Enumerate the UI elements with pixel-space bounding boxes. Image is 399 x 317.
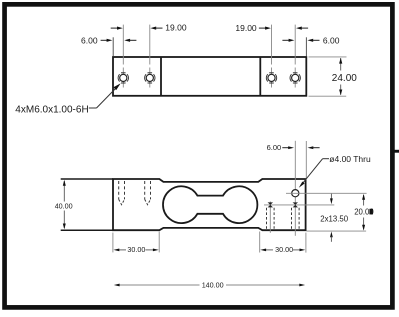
divider left bbox=[160, 57, 162, 96]
hidden tapped hole A (left block) bbox=[119, 181, 125, 205]
dim 2x13.50 bbox=[320, 194, 348, 242]
svg-text:6.00: 6.00 bbox=[267, 143, 282, 152]
centerline hole C bbox=[269, 202, 271, 233]
svg-text:30.00: 30.00 bbox=[127, 245, 145, 254]
dim 24.00 bbox=[309, 57, 358, 96]
top view body rect bbox=[113, 57, 306, 96]
leader phi4.00 Thru bbox=[299, 154, 371, 188]
note 4xM6.0x1.00-6H bbox=[15, 83, 120, 115]
svg-text:4xM6.0x1.00-6H: 4xM6.0x1.00-6H bbox=[15, 104, 88, 115]
svg-text:40.00: 40.00 bbox=[55, 202, 73, 211]
centerline hole D + phi4 hole bbox=[294, 141, 296, 236]
svg-text:6.00: 6.00 bbox=[323, 36, 340, 46]
lower view outline bbox=[113, 179, 306, 230]
hidden tapped hole D (right block, from bottom) bbox=[292, 208, 300, 230]
dim 30.00 left bbox=[113, 232, 159, 254]
dim 140.00 bbox=[114, 280, 305, 289]
dim row2 6.00 left bbox=[81, 36, 136, 56]
13.50 depth extension line bbox=[264, 204, 334, 206]
svg-text:19.00: 19.00 bbox=[165, 23, 187, 33]
tapped hole 1 bbox=[118, 73, 128, 83]
divider right bbox=[259, 57, 261, 96]
phi 4 thru hole bbox=[292, 190, 299, 197]
tapped hole 3 bbox=[266, 73, 276, 83]
svg-text:19.00: 19.00 bbox=[235, 23, 257, 33]
hole centerlines (top view) bbox=[123, 25, 295, 88]
svg-text:140.00: 140.00 bbox=[202, 280, 224, 289]
dim row1 19.00 left bbox=[111, 23, 187, 33]
hidden tapped hole C (right block, from bottom) bbox=[267, 208, 275, 230]
dim 30.00 right bbox=[260, 232, 306, 255]
tapped hole 2 bbox=[145, 73, 155, 83]
svg-text:ø4.00 Thru: ø4.00 Thru bbox=[329, 154, 371, 164]
dim row2 6.00 right bbox=[282, 36, 339, 57]
border center tick right bbox=[394, 150, 399, 153]
svg-text:30.00: 30.00 bbox=[275, 245, 293, 254]
svg-text:24.00: 24.00 bbox=[332, 73, 357, 84]
dim 40.00 bbox=[55, 180, 73, 229]
bowtie arrows at hole C depth bbox=[268, 202, 273, 207]
dim 6.00 lower bbox=[267, 141, 320, 179]
left extension lines of 40.00 bbox=[61, 178, 113, 180]
hidden tapped hole B (left block) bbox=[145, 181, 151, 205]
dim row1 19.00 right bbox=[235, 23, 308, 33]
dim 20.00 bbox=[286, 193, 374, 231]
bowtie arrows at hole D depth bbox=[293, 202, 298, 207]
svg-text:6.00: 6.00 bbox=[81, 36, 98, 46]
tapped hole 4 bbox=[290, 73, 300, 83]
svg-text:2x13.50: 2x13.50 bbox=[320, 214, 348, 223]
dog-bone cutout bbox=[163, 186, 257, 223]
